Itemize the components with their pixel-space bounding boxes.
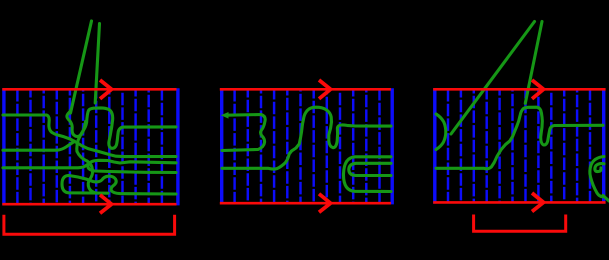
top boundary P2: [220, 88, 391, 91]
red flow lines P3: [433, 80, 605, 231]
contour corner diagonal P3: [603, 196, 609, 202]
red flow lines P2: [220, 80, 391, 212]
contour hairpin mid P1: [88, 160, 176, 172]
bottom boundary P1: [2, 203, 176, 206]
right wall P2: [391, 88, 394, 204]
field lines (dashed) P2: [235, 89, 380, 204]
field lines (dashed) P1: [17, 89, 162, 205]
contour blob P1: [77, 108, 176, 161]
contour hook outer P3: [590, 157, 604, 197]
top boundary P1: [2, 88, 176, 91]
bracket P3: [474, 215, 566, 232]
contour left line y150 P1: [3, 141, 75, 150]
contour lower hairpin P1: [62, 176, 108, 194]
contour mid blob P2: [222, 107, 391, 169]
field lines (dashed) P3: [448, 89, 590, 203]
right wall P1: [176, 88, 179, 205]
left wall P1: [2, 88, 5, 205]
top boundary P3: [433, 88, 605, 91]
right wall P3: [602, 88, 605, 203]
bottom arrow P1: [100, 195, 112, 214]
contour outer hairpin P2: [343, 157, 391, 192]
contour inner hairpin P2: [349, 163, 391, 175]
bottom boundary P3: [433, 201, 605, 204]
contour bottom lobe P1: [87, 161, 96, 193]
contour left bracket P2: [222, 115, 265, 151]
pointer line right P1: [95, 24, 99, 104]
contour D-arc P3: [436, 114, 446, 150]
contour lower fold top P1: [69, 176, 176, 195]
contour egg loop left P1: [67, 111, 86, 137]
bottom boundary P2: [220, 202, 391, 205]
pointer line long P3: [451, 22, 535, 135]
bottom arrow P3: [532, 193, 544, 212]
green contour network P1: [3, 21, 176, 194]
contour top-left line with step P1: [3, 115, 176, 157]
bottom arrow P2: [319, 194, 331, 213]
top arrow P1: [100, 80, 112, 99]
left wall P2: [220, 88, 223, 204]
top arrow P2: [319, 80, 331, 99]
bracket P1: [4, 215, 175, 235]
pointer line left P1: [71, 21, 92, 113]
contour hook curl P3: [595, 164, 604, 172]
green contours P3: [436, 22, 609, 202]
red flow lines P1: [2, 80, 176, 234]
top arrow P3: [532, 80, 544, 99]
green contours P2: [222, 107, 391, 191]
left wall P3: [433, 88, 436, 203]
contour main blob P3: [436, 107, 603, 169]
contour left line y167 P1: [3, 165, 87, 168]
green arrowhead P2: [221, 112, 229, 119]
pointer line short P3: [525, 22, 542, 104]
